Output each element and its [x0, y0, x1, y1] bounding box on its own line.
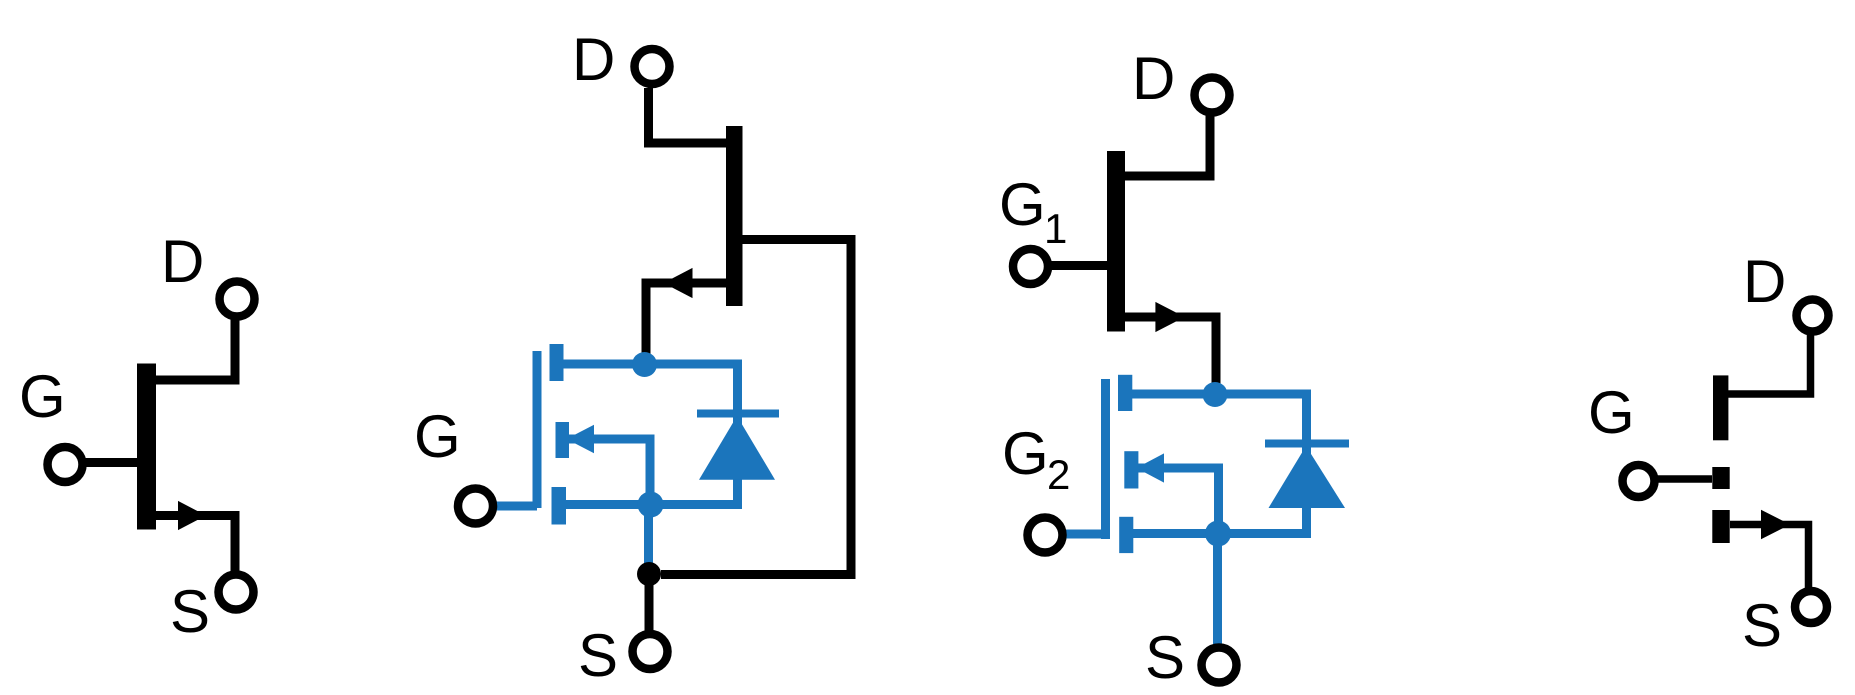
svg-text:S: S: [1742, 592, 1782, 659]
wire M1 body-diode branch: [733, 364, 742, 505]
wire Q3 gate lead G1: [1050, 261, 1110, 270]
terminal D circle Q4: [1797, 300, 1829, 332]
wire M1 drain line: [562, 360, 742, 369]
wire Q1 gate lead: [84, 458, 140, 467]
mosfet M1 middle channel dash: [556, 422, 570, 458]
arrow M2 body (pointing to gate): [1137, 453, 1165, 482]
arrow on Q3 source wire: [1155, 302, 1184, 332]
terminal S circle Q4: [1795, 591, 1827, 623]
terminal G circle Q4: [1623, 465, 1655, 497]
diode D2 cathode bar: [1265, 440, 1349, 448]
mosfet M1 gate line (blue LV MOSFET): [533, 351, 542, 508]
terminal S circle Q3: [1202, 648, 1237, 683]
svg-text:G: G: [1588, 379, 1635, 446]
terminal G2 circle: [1028, 518, 1063, 553]
node cascode source junction dot: [637, 562, 661, 586]
wire M2 gate lead G2: [1045, 530, 1106, 539]
wire M2 body-diode branch: [1302, 394, 1311, 534]
terminal S circle Q1: [219, 575, 254, 610]
diode D1 anode triangle: [699, 416, 775, 480]
terminal G circle (cascode gate): [458, 489, 493, 524]
mosfet M2 middle channel dash: [1124, 451, 1138, 488]
terminal D circle Q1: [220, 282, 255, 317]
transistor Q1 gate bar (d-mode GaN HEMT channel bar): [137, 364, 156, 530]
arrow on Q1 source wire: [178, 501, 206, 530]
wire Q3 drain (bar top to D terminal): [1125, 100, 1210, 176]
svg-text:D: D: [161, 228, 204, 295]
wire Q1 drain (bar top to D terminal): [156, 305, 235, 380]
wire M2 drain line: [1131, 390, 1311, 399]
wire M1 body arrow branch: [565, 439, 650, 504]
svg-text:G: G: [1002, 420, 1049, 487]
svg-text:G: G: [414, 403, 461, 470]
svg-text:2: 2: [1047, 451, 1070, 498]
wire Q4 gate lead: [1656, 475, 1712, 483]
mosfet M2 bottom channel dash: [1119, 517, 1133, 553]
arrow M1 body (pointing to gate): [567, 425, 595, 454]
node M1 source junction dot: [638, 492, 664, 518]
svg-text:G: G: [999, 171, 1046, 238]
svg-text:1: 1: [1044, 205, 1067, 252]
transistor Q3 gate bar (dual-gate d-mode HEMT channel bar): [1107, 151, 1125, 332]
wire M1 gate lead: [475, 502, 537, 511]
wire M2 source to S terminal: [1213, 534, 1222, 645]
svg-text:D: D: [1743, 248, 1786, 315]
wire Q4 source (dash to S terminal): [1730, 525, 1809, 590]
arrow on Q4 source wire: [1761, 510, 1790, 540]
terminal D circle Q2: [635, 49, 670, 84]
terminal D circle Q3: [1195, 78, 1230, 113]
wire Q4 drain (bar to D terminal): [1728, 320, 1811, 394]
terminal G circle Q1: [48, 447, 83, 482]
mosfet M1 top channel dash: [550, 344, 564, 381]
wire M2 source line: [1132, 529, 1311, 538]
wire Q3 source (bar bottom to M2 drain node): [1125, 317, 1216, 392]
diode D1 cathode bar: [697, 410, 779, 418]
mosfet M1 bottom channel dash: [552, 487, 567, 525]
transistor Q4 source dash segment: [1712, 510, 1729, 543]
svg-text:S: S: [578, 622, 618, 689]
svg-text:S: S: [170, 578, 210, 645]
svg-text:D: D: [572, 26, 615, 93]
wire Q2 drain (D terminal down to bar top): [649, 88, 727, 143]
svg-text:D: D: [1132, 45, 1175, 112]
wire Q1 source (bar bottom to S terminal): [156, 516, 235, 574]
transistor Q2 gate bar (cascode d-mode HEMT channel bar): [726, 126, 743, 306]
wire M1 source to node: [644, 505, 653, 567]
wire Q2 source (bar left down to M1 drain node): [646, 283, 726, 362]
transistor Q4 gate dash segment: [1712, 467, 1729, 489]
terminal G1 circle: [1013, 249, 1048, 284]
svg-text:S: S: [1145, 624, 1185, 691]
transistor Q4 drain bar segment (e-mode GaN HEMT): [1713, 375, 1728, 440]
wire M1 source line: [564, 500, 742, 509]
node M2 drain junction dot: [1203, 382, 1228, 407]
svg-text:G: G: [19, 363, 66, 430]
terminal S circle (cascode source): [633, 634, 668, 669]
wire Q2 gate feedback (bar right side down to source node): [661, 240, 851, 575]
wire node to S terminal: [645, 574, 654, 631]
node M2 source junction dot: [1205, 521, 1231, 547]
node M1 drain junction dot: [632, 352, 657, 377]
wire M2 body arrow branch: [1137, 468, 1219, 533]
diode D2 anode triangle: [1269, 446, 1346, 508]
mosfet M2 gate line (blue LV MOSFET): [1101, 379, 1110, 539]
arrow on Q2 source wire: [664, 268, 693, 298]
mosfet M2 top channel dash: [1118, 375, 1132, 411]
